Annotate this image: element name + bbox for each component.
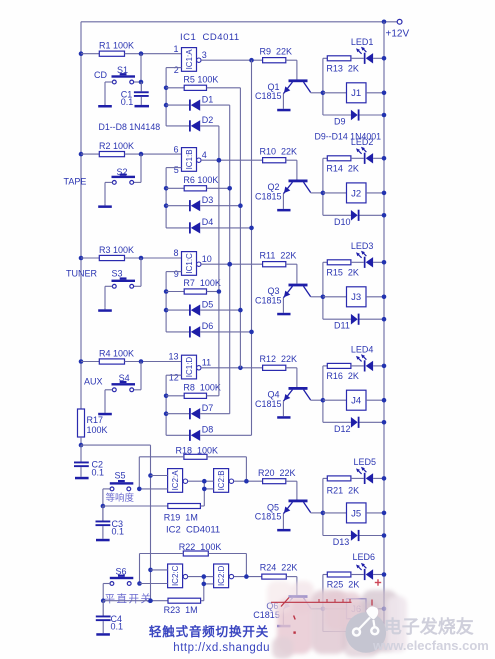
diode D9 [351, 109, 360, 120]
svg-text:D1--D8 1N4148: D1--D8 1N4148 [99, 122, 161, 132]
resistor R17 [78, 409, 85, 437]
junction top right rail [382, 20, 387, 25]
label S4 [119, 373, 130, 383]
node R20 junction [244, 479, 249, 484]
blob pink 6 [325, 592, 362, 630]
node R24 junction [244, 574, 249, 579]
wire LED1 to rail [373, 57, 384, 59]
wire node to IC2 bus [81, 445, 151, 601]
wire down to switch S3 [134, 258, 142, 286]
capacitor C3 [96, 506, 111, 526]
node rail J5 [382, 511, 387, 516]
terminal +12V [397, 19, 402, 24]
blob pink 9 [267, 581, 293, 613]
wire D4 left [166, 227, 189, 229]
wire bus to IC2:A pin [151, 475, 168, 477]
svg-text:0.1: 0.1 [92, 467, 105, 477]
wire R21 to LED5 [351, 477, 364, 479]
node rail D12 [382, 420, 387, 425]
node IC2:D tie top [202, 574, 207, 579]
diode D14 [351, 626, 360, 637]
node rail J3 [382, 295, 387, 300]
wire D8 left [166, 434, 189, 436]
wire down to switch S2 [134, 154, 142, 182]
wire +12V top rail [81, 21, 397, 23]
node Rfb row 1 [164, 86, 169, 91]
wire Rfb left row 1 [166, 87, 184, 89]
label Q5 type [255, 511, 282, 521]
label title 轻触式音频切换开关 [149, 624, 269, 639]
pin 13 [168, 352, 178, 362]
label 平直开关 [105, 592, 153, 605]
node output row 3 [227, 262, 232, 267]
label D11 [334, 321, 350, 331]
label CD [94, 70, 107, 80]
bubble IC2:B output [229, 479, 233, 483]
svg-text:13: 13 [168, 352, 178, 362]
node rail R3 [79, 256, 84, 261]
svg-text:D1: D1 [202, 94, 214, 104]
svg-text:LED2: LED2 [351, 137, 374, 147]
wire pin 2 to input bus [166, 68, 181, 126]
node output row 2 [217, 158, 222, 163]
svg-text:5: 5 [174, 165, 179, 175]
wire output pin 10 [201, 263, 263, 265]
svg-text:LED3: LED3 [351, 241, 374, 251]
svg-text:+12V: +12V [386, 29, 410, 40]
transistor Q6 [283, 595, 310, 609]
svg-text:S3: S3 [112, 268, 123, 278]
svg-text:J4: J4 [351, 396, 361, 407]
wire IC2:D out [234, 576, 262, 578]
node S6 left / C4 / R23 [101, 598, 106, 603]
label D4 [202, 217, 214, 227]
resistor R9 [263, 58, 286, 63]
wire R18 right [207, 457, 246, 481]
svg-text:D13: D13 [333, 537, 350, 547]
resistor R7 [184, 289, 206, 294]
svg-text:D11: D11 [334, 321, 350, 331]
diode D10 [351, 210, 360, 221]
svg-text:9: 9 [174, 269, 179, 279]
resistor R4 [99, 359, 124, 364]
wire down to switch S1 [134, 54, 142, 82]
svg-text:IC1:B: IC1:B [185, 149, 194, 169]
wire right +12V rail [383, 22, 385, 632]
svg-text:R19 1M: R19 1M [164, 513, 198, 523]
LED2 [356, 147, 373, 164]
label AUX [84, 376, 103, 386]
label Q6 type [253, 610, 280, 620]
wire S2 left to ground [105, 182, 112, 204]
svg-text:AUX: AUX [84, 376, 103, 386]
wire emitter Q1 [282, 94, 284, 109]
node switch top row 3 [139, 256, 144, 261]
wire Rfb left row 2 [166, 187, 184, 189]
wire R19 left [103, 505, 168, 507]
label R19 [164, 513, 198, 523]
label R12 [260, 354, 298, 364]
svg-text:IC2:A: IC2:A [171, 470, 180, 491]
node D5 left [164, 308, 169, 313]
node IC2:B tie bottom [202, 487, 207, 492]
relay J6 [347, 599, 367, 619]
svg-text:C1815: C1815 [255, 399, 282, 409]
ground S2 [98, 204, 112, 208]
label LED5 [354, 457, 377, 467]
ground Q4 [277, 416, 290, 419]
label R22 [179, 542, 222, 552]
op-amp IC1:D gate [182, 355, 197, 379]
node D1 left [164, 103, 169, 108]
label TAPE [64, 176, 87, 186]
wire Rfb left row 4 [166, 395, 184, 397]
wire S6 to IC2:C pin [140, 583, 168, 585]
node switch top row 1 [139, 51, 144, 56]
svg-text:LED1: LED1 [351, 37, 374, 47]
ground C1 [135, 105, 150, 108]
svg-text:等响度: 等响度 [106, 492, 135, 504]
wire D10 left [323, 214, 351, 216]
svg-text:100K: 100K [87, 425, 108, 435]
ground C2 [75, 477, 89, 480]
pin 4 [202, 150, 207, 160]
resistor R12 [263, 365, 286, 370]
wire C1 to ground [140, 97, 142, 105]
svg-text:R2 100K: R2 100K [99, 141, 134, 151]
svg-text:C1815: C1815 [255, 295, 282, 305]
resistor R2 [99, 152, 124, 157]
op-amp IC1:A gate [182, 48, 197, 72]
svg-text:R17: R17 [87, 415, 104, 425]
pin 9 [174, 269, 179, 279]
wire D3 left [166, 205, 189, 207]
label D3 [202, 195, 214, 205]
label R16 [326, 371, 359, 381]
resistor R22 [183, 551, 208, 556]
svg-text:J1: J1 [351, 88, 361, 99]
ground Q6 [277, 625, 290, 628]
ground S3 [98, 308, 112, 312]
svg-text:IC1 CD4011: IC1 CD4011 [180, 32, 240, 43]
label S6 [116, 567, 127, 577]
label LED4 [351, 345, 374, 355]
wire J3 left [323, 296, 347, 298]
node bus C R6 [227, 186, 232, 191]
wire bus output A [251, 60, 253, 435]
label url [173, 642, 270, 654]
node Rfb row 4 [164, 394, 169, 399]
wire to R13 row 1 [323, 57, 327, 59]
wire base Q2 [286, 160, 297, 179]
wire left +12V rail [80, 22, 82, 409]
wire base Q1 [286, 60, 297, 79]
wire R3 to gate pin 8 [125, 257, 182, 259]
relay J2 [347, 183, 367, 203]
svg-text:R16 2K: R16 2K [326, 371, 359, 381]
transistor Q4 [283, 387, 310, 401]
wire IC2:C out to IC2:D in [188, 577, 214, 601]
node rail D11 [382, 317, 387, 322]
label S3 [112, 268, 123, 278]
label Q3 type [255, 295, 282, 305]
label R11 [260, 251, 297, 261]
node switch top row 4 [139, 359, 144, 364]
wire J6 left [323, 608, 347, 610]
wire rail to R4 [81, 361, 99, 363]
svg-text:D9: D9 [334, 117, 346, 127]
svg-text:R13 2K: R13 2K [326, 63, 359, 73]
op-amp IC1:B gate [182, 148, 197, 172]
wire collector Q1 [311, 91, 323, 93]
wire S6 left [103, 584, 111, 601]
svg-text:R12 22K: R12 22K [260, 354, 298, 364]
label IC1 CD4011 [180, 32, 240, 43]
wire base Q5 [286, 481, 297, 499]
label R9 [260, 47, 293, 57]
node D7 left [164, 411, 169, 416]
node C1 top [139, 80, 144, 85]
switch S5 [110, 480, 134, 491]
node bus B out4 [217, 158, 222, 163]
wire C3 to ground [102, 526, 104, 539]
node S5 right [137, 487, 142, 492]
node output row 1 [249, 58, 254, 63]
wire D8 to bus [200, 434, 251, 436]
bubble IC1:C output [197, 262, 201, 266]
wire rail to R2 [81, 153, 99, 155]
svg-text:IC2:B: IC2:B [217, 470, 226, 490]
svg-text:TAPE: TAPE [64, 176, 87, 186]
wire D7 left [166, 413, 189, 415]
svg-text:2: 2 [174, 65, 179, 75]
wire D5 left [166, 309, 189, 311]
capacitor C4 [96, 601, 111, 621]
wire R23 right [201, 600, 204, 602]
watermark logo [346, 607, 387, 653]
wire D13 left [323, 535, 351, 537]
wire collector Q6 [311, 607, 323, 610]
wire emitter Q6 [282, 609, 284, 624]
svg-text:R15 2K: R15 2K [326, 267, 359, 277]
label Q1 [268, 82, 280, 92]
label Q3 [268, 286, 280, 296]
label D8 [202, 425, 214, 435]
wire D6 to bus [200, 331, 251, 333]
node S5 left / C3 / R19 [101, 504, 106, 509]
wire pin 5 to input bus [166, 168, 181, 228]
svg-text:IC1:A: IC1:A [185, 49, 194, 70]
node rail D13 [382, 533, 387, 538]
diode D3 [189, 200, 200, 211]
wire D5 to bus [200, 309, 240, 311]
wire R to LED2 [351, 157, 364, 159]
label D9 [334, 117, 346, 127]
label D10 [334, 217, 351, 227]
wire branch row 4 [322, 366, 324, 422]
relay J1 [347, 83, 367, 103]
wire R25 to LED6 [351, 574, 364, 576]
pin 1 [173, 44, 178, 54]
resistor R3 [99, 255, 124, 260]
wire D9 to rail [360, 114, 385, 116]
wire R to LED3 [351, 261, 364, 263]
svg-text:R9 22K: R9 22K [260, 47, 293, 57]
transistor Q1 [283, 79, 310, 93]
svg-text:D3: D3 [202, 195, 214, 205]
capacitor C1 [134, 82, 149, 97]
svg-text:IC2:D: IC2:D [217, 565, 226, 586]
diode D11 [351, 314, 360, 325]
wire R19 right [200, 505, 204, 507]
label C2 [92, 460, 105, 478]
wire branch row 5 [322, 478, 324, 535]
svg-text:IC1:D: IC1:D [185, 357, 194, 378]
op-amp IC2:B gate [214, 469, 229, 493]
LED3 [356, 251, 373, 268]
wire pin 12 to input bus [166, 375, 181, 435]
label R15 [326, 267, 359, 277]
svg-text:R21 2K: R21 2K [327, 486, 360, 496]
label R10 [260, 147, 298, 157]
svg-text:D8: D8 [202, 425, 214, 435]
svg-text:D12: D12 [334, 424, 351, 434]
node IC2 bus bottom [148, 598, 153, 603]
svg-text:J3: J3 [351, 292, 361, 303]
resistor R16 [327, 363, 351, 368]
resistor R23 [168, 598, 201, 603]
wire R2 to gate pin 6 [125, 153, 182, 155]
label +12V [386, 29, 410, 40]
wire rail to C2 [80, 445, 82, 461]
red annotation marks [281, 579, 381, 634]
label Q4 [268, 390, 280, 400]
label R20 [258, 468, 296, 478]
wire R22 right [208, 554, 246, 577]
node rail LED2 [382, 156, 387, 161]
wire collector Q3 [311, 296, 323, 298]
svg-text:R24 22K: R24 22K [260, 562, 298, 572]
wire bus output B [218, 126, 220, 396]
blob pink 4 [311, 590, 347, 654]
switch S1 [112, 73, 136, 84]
resistor R21 [327, 476, 351, 481]
node collector row 3 [321, 295, 326, 300]
node rail LED1 [382, 56, 387, 61]
label IC2 CD4011 [166, 525, 220, 536]
svg-text:R8 100K: R8 100K [183, 382, 221, 392]
svg-text:S5: S5 [115, 471, 126, 481]
diode D2 [189, 120, 200, 131]
wire output pin 3 [201, 59, 263, 61]
transistor Q5 [283, 500, 310, 514]
pin 10 [202, 254, 212, 264]
resistor R1 [99, 51, 124, 56]
node bus A D4 [249, 226, 254, 231]
wire Rfb to bus row 3 [207, 291, 219, 293]
wire J2 right [366, 192, 384, 194]
svg-text:J2: J2 [351, 188, 361, 199]
label Q1 type [255, 91, 282, 101]
wire J5 right [366, 512, 384, 514]
label R8 [183, 382, 221, 392]
wire base Q3 [286, 264, 297, 283]
label R17 [87, 415, 108, 435]
bubble IC2:A output [183, 479, 187, 483]
node IC2:D tie bottom [202, 582, 207, 587]
svg-text:11: 11 [202, 358, 211, 368]
node R17 bottom [79, 443, 84, 448]
svg-text:6: 6 [173, 144, 178, 154]
wire branch row 2 [322, 158, 324, 215]
wire R22 left [140, 554, 184, 584]
wire R to LED4 [351, 365, 364, 367]
LED4 [356, 354, 373, 371]
wire to R16 row 4 [323, 365, 327, 367]
svg-text:LED6: LED6 [353, 552, 376, 562]
resistor R15 [327, 260, 351, 265]
wire R23 left [103, 600, 168, 602]
resistor R19 [168, 504, 201, 509]
wire IC2:A out to IC2:B in [188, 481, 214, 506]
svg-text:R6 100K: R6 100K [183, 175, 218, 185]
label S1 [117, 65, 128, 75]
svg-text:D2: D2 [202, 115, 214, 125]
wire R18 left [139, 457, 184, 489]
ground Q1 [277, 109, 290, 112]
wire D7 to bus [200, 413, 230, 415]
svg-text:R5 100K: R5 100K [183, 74, 218, 84]
wire base Q6 [286, 577, 297, 596]
wire to R25 [323, 574, 327, 576]
node rail R4 [79, 359, 84, 364]
node rail LED5 [382, 476, 387, 481]
relay J5 [347, 503, 367, 523]
wire branch row 6 [322, 575, 324, 632]
node IC2:B tie top [202, 479, 207, 484]
svg-text:10: 10 [202, 254, 212, 264]
resistor R25 [327, 572, 351, 577]
wire D6 left [166, 331, 189, 333]
wire LED3 to rail [373, 261, 384, 263]
label R21 [327, 486, 360, 496]
diode D7 [189, 408, 200, 419]
wire emitter Q5 [282, 514, 284, 529]
label D13 [333, 537, 350, 547]
node Rfb row 2 [164, 186, 169, 191]
bubble IC2:D output [229, 574, 233, 578]
wire bus output C [229, 105, 231, 414]
wire D11 left [323, 318, 351, 320]
label Q6 [266, 601, 278, 611]
wire down to switch S4 [134, 362, 142, 390]
ground Q2 [277, 209, 290, 212]
wire Rfb to bus row 2 [207, 187, 230, 189]
label R3 [99, 245, 134, 255]
svg-text:R10 22K: R10 22K [260, 147, 298, 157]
node rail J4 [382, 398, 387, 403]
wire output pin 4 [201, 159, 263, 161]
wire J2 left [323, 192, 347, 194]
wire J1 right [366, 92, 384, 94]
label D2 [202, 115, 214, 125]
wire D11 to rail [360, 318, 385, 320]
node bus D D3 [238, 203, 243, 208]
wire D13 to rail [360, 535, 385, 537]
diode D13 [351, 530, 360, 541]
svg-text:http://xd.shangdu: http://xd.shangdu [173, 642, 270, 654]
node rail R1 [79, 51, 84, 56]
